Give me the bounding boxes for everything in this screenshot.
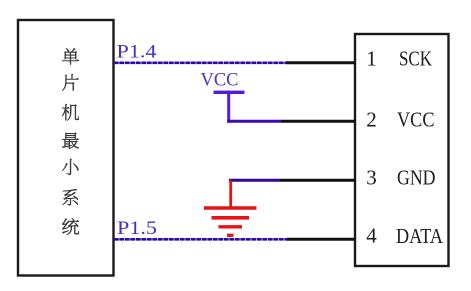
label char 小: [62, 159, 78, 175]
ground stem: [229, 180, 232, 207]
power symbol VCC bar: [214, 91, 245, 94]
label char 最: [62, 133, 78, 149]
pin 3 number: [366, 166, 377, 190]
wire P1.5 dashed segment: [114, 238, 287, 240]
svg-text:SCK: SCK: [399, 47, 432, 71]
pin 1 label SCK: [399, 47, 432, 71]
svg-text:2: 2: [366, 108, 377, 132]
wire P1.4 dashed segment: [114, 62, 286, 64]
pin 4 label DATA: [396, 224, 444, 248]
power symbol VCC stem: [227, 91, 230, 123]
svg-text:DATA: DATA: [396, 224, 444, 248]
box U2 sensor module: [355, 34, 449, 266]
pin 2 label VCC: [397, 108, 435, 132]
wire pin4 black segment: [287, 238, 356, 241]
label char 单: [62, 48, 79, 64]
svg-text:VCC: VCC: [201, 70, 239, 91]
pin 4 number: [366, 224, 377, 248]
svg-text:VCC: VCC: [397, 108, 435, 132]
ground bar 3: [219, 225, 243, 228]
net label VCC: [201, 70, 239, 91]
net label P1.4: [117, 43, 157, 63]
net label P1.5: [117, 219, 157, 239]
label char 统: [62, 218, 79, 235]
svg-text:3: 3: [366, 166, 377, 190]
label char 片: [62, 74, 78, 90]
pin 1 number: [366, 47, 377, 71]
svg-text:1: 1: [366, 47, 377, 71]
ground bar 2: [212, 216, 250, 220]
wire pin3 purple segment: [229, 179, 280, 182]
wire pin1 black segment: [286, 61, 356, 64]
svg-text:4: 4: [366, 224, 377, 248]
wire pin3 black segment: [280, 179, 356, 182]
ground bar 4: [227, 234, 234, 237]
wire pin2 purple segment: [227, 120, 281, 123]
pin 3 label GND: [397, 166, 436, 190]
box U1 MCU minimal system: [18, 20, 114, 276]
svg-text:GND: GND: [397, 166, 436, 190]
label char 机: [62, 104, 79, 120]
label char 系: [62, 189, 77, 205]
svg-text:P1.5: P1.5: [117, 219, 157, 239]
ground bar 1: [204, 206, 257, 210]
wire pin2 black segment: [281, 120, 356, 123]
pin 2 number: [366, 108, 377, 132]
svg-text:P1.4: P1.4: [117, 43, 157, 63]
